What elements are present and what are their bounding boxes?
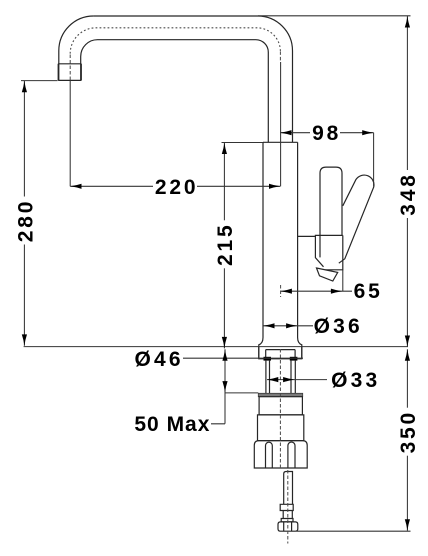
dim Ø36 arrow right <box>286 323 297 328</box>
dim 220 label <box>153 176 198 199</box>
dim 220 arrow right <box>269 184 280 189</box>
dim 215 line <box>223 143 225 349</box>
spout tube inner outline <box>81 40 269 143</box>
dim 280 label <box>15 197 38 245</box>
dim 50 Max arrow down <box>222 381 227 392</box>
dim 98 line <box>280 132 373 134</box>
handle housing <box>315 235 342 269</box>
dim 98 extension line down to lever <box>373 133 375 187</box>
dim 280 extension line top <box>21 80 58 82</box>
stud tee washer <box>278 522 298 531</box>
washer block <box>259 397 302 415</box>
dim 65 arrow left <box>281 289 292 294</box>
dim Ø46 leader line <box>183 357 303 359</box>
dim 350 label <box>397 408 420 456</box>
dim 220 extension line <box>69 80 71 186</box>
faucet body top edge <box>263 141 298 143</box>
base plate <box>259 347 302 359</box>
dim 50 Max arrow up <box>222 349 227 360</box>
dim 98 arrow right <box>362 130 373 135</box>
axis centerline lower (dashed) <box>279 349 281 468</box>
dim 65 arrow right <box>331 289 342 294</box>
svg-text:350: 350 <box>397 410 420 453</box>
handle housing bottom cap <box>317 268 338 281</box>
dim 220 line <box>70 185 280 187</box>
spout outlet aerator box <box>58 64 81 81</box>
dim 280 arrow up <box>22 81 27 92</box>
dim 348 arrow up <box>405 16 410 27</box>
dim 98 label <box>310 122 341 145</box>
dim 98 arrow left <box>280 130 291 135</box>
dim 280 arrow down <box>22 334 27 345</box>
dim 65 extension (housing edge) <box>342 270 344 292</box>
svg-text:98: 98 <box>312 122 341 145</box>
dim 220 arrow left <box>70 184 81 189</box>
washer dark bar <box>258 393 302 396</box>
dim 280 line <box>23 81 25 346</box>
dim 98 / 220 shared extension (body axis) <box>280 62 282 186</box>
svg-text:348: 348 <box>397 172 420 215</box>
faucet body right edge with flare <box>298 142 302 358</box>
knurled mounting nut <box>254 441 307 468</box>
threaded stud <box>280 472 293 522</box>
dim Ø36 line <box>263 325 313 327</box>
svg-text:Ø33: Ø33 <box>331 369 380 392</box>
dim 350 line <box>406 349 408 531</box>
dim 215 label <box>214 220 237 268</box>
svg-text:215: 215 <box>214 223 237 266</box>
svg-text:220: 220 <box>155 176 198 199</box>
countertop line <box>24 346 408 348</box>
dim Ø36 arrow left <box>263 323 274 328</box>
faucet body left edge with flare <box>259 142 263 358</box>
dim 348 line <box>406 16 408 347</box>
dim Ø33 arrow left <box>267 377 278 382</box>
svg-text:280: 280 <box>15 199 38 242</box>
dim 348 extension line top <box>258 15 411 17</box>
dim Ø33 arrow right <box>283 377 294 382</box>
gasket left (black) <box>264 357 272 361</box>
handle lever (tilted position) <box>339 175 374 263</box>
dim 65 centerline tick <box>280 285 282 297</box>
svg-text:Ø36: Ø36 <box>314 315 363 338</box>
dim 350 extension line bottom <box>297 530 411 532</box>
dim 348 label <box>397 170 420 218</box>
handle step body to housing <box>298 235 316 237</box>
dim 50 Max leader <box>211 349 225 424</box>
svg-text:65: 65 <box>354 280 383 303</box>
dim 348 arrow down <box>405 336 410 347</box>
svg-text:50 Max: 50 Max <box>134 413 210 436</box>
dim 65 line <box>281 290 352 292</box>
stud centerline (dashed) <box>287 470 289 544</box>
spout centerline (dashed) <box>69 54 71 80</box>
dim 215 arrow down <box>222 337 227 348</box>
dim 50 Max washer reference line <box>225 392 259 394</box>
spacer block <box>258 415 304 441</box>
gasket right (black) <box>290 357 298 361</box>
spout tube outer outline <box>59 16 293 142</box>
threaded shank <box>266 361 295 394</box>
svg-text:Ø46: Ø46 <box>134 348 183 371</box>
dim 215 extension line top <box>222 142 264 144</box>
dim Ø33 line <box>267 379 327 381</box>
dim 350 arrow up <box>405 349 410 360</box>
handle lever grip (vertical position) <box>320 167 342 236</box>
dim 350 arrow down <box>405 519 410 530</box>
dim 215 arrow up <box>222 143 227 154</box>
